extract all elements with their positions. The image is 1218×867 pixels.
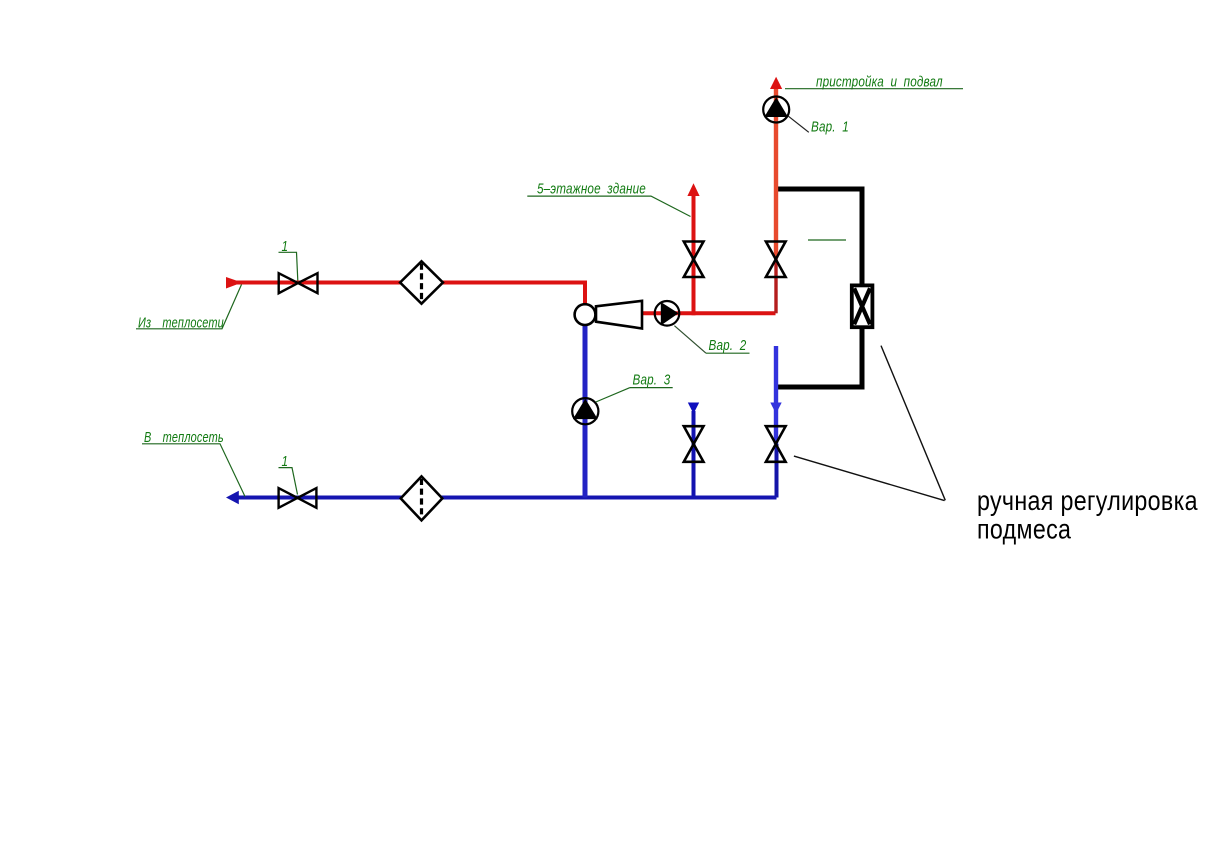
leader from gate valve to note [881, 346, 945, 501]
svg-text:5–этажное здание: 5–этажное здание [537, 180, 646, 197]
elevator cone [596, 301, 642, 329]
valve on annex riser [766, 242, 786, 278]
pipe: orange riser to annex (Вар.1 line) [774, 89, 778, 258]
svg-text:Вар. 2: Вар. 2 [709, 336, 747, 353]
strainer (filter) on supply main [400, 261, 443, 303]
flow arrow up to 5-storey building [687, 183, 699, 196]
pipe: red supply main from heat network (horizontal + corner down) [228, 283, 585, 305]
pipe: black mixing loop upper run [777, 189, 862, 284]
gate valve 1 on supply main [279, 273, 318, 293]
label 1 (return valve) [279, 452, 298, 494]
valve on 5-storey supply riser [684, 242, 704, 278]
flow arrow up to annex [770, 77, 782, 89]
strainer (filter) on return main [401, 476, 443, 520]
valve on annex return branch [766, 426, 786, 462]
label пристройка и подвал [785, 73, 963, 90]
pipe: blue return main to heat network [236, 496, 777, 500]
svg-text:подмеса: подмеса [977, 515, 1072, 545]
leader from annex return valve to note [794, 456, 945, 501]
pipe: red branch riser to 5-storey building [692, 196, 696, 315]
flow arrow down on annex return [770, 403, 781, 414]
valve on 5-storey return branch [684, 426, 704, 462]
svg-text:пристройка и подвал: пристройка и подвал [816, 73, 943, 90]
pipe: red distribution line after elevator [642, 311, 776, 315]
empty label dash near annex valve [808, 239, 846, 241]
pump Вар.1 (vertical, on annex riser) [763, 97, 789, 123]
svg-text:Из теплосети: Из теплосети [138, 314, 224, 331]
pump Вар.2 (horizontal) [655, 301, 680, 326]
svg-text:ручная регулировка: ручная регулировка [977, 486, 1198, 516]
manual mixing gate valve (rect with X) [852, 285, 873, 327]
pipe: dark red riser segment to corner [774, 258, 777, 313]
label 1 (supply valve) [279, 237, 298, 280]
label Из теплосети [136, 285, 242, 331]
pipe: blue return branch from 5-storey building [692, 411, 696, 498]
elevator mixing point (circle) [575, 304, 596, 325]
pipe: bright blue return drop from annex [774, 346, 778, 444]
svg-text:Вар. 1: Вар. 1 [811, 118, 849, 135]
svg-text:Вар. 3: Вар. 3 [633, 371, 671, 388]
label В теплосеть [142, 428, 245, 496]
flow arrow down on 5-storey return [688, 403, 699, 414]
svg-text:1: 1 [282, 237, 289, 254]
label Вар. 2 [674, 326, 749, 354]
flow arrow into supply main [226, 277, 242, 289]
pipe: black mixing loop lower run [776, 329, 862, 387]
svg-text:В теплосеть: В теплосеть [144, 428, 224, 445]
flow arrow out of return main [226, 491, 239, 505]
note ручная регулировка подмеса [977, 486, 1198, 545]
gate valve 1 on return main [279, 488, 317, 508]
pipe: dark blue below mixing valve to return main [775, 444, 779, 498]
label 5-этажное здание [527, 180, 690, 216]
pump Вар.3 (vertical, on elevator drop) [572, 398, 598, 424]
svg-text:1: 1 [282, 452, 289, 469]
label Вар. 1 [789, 116, 849, 134]
label Вар. 3 [596, 371, 673, 402]
pipe: blue drop from elevator mixing point [583, 325, 588, 498]
